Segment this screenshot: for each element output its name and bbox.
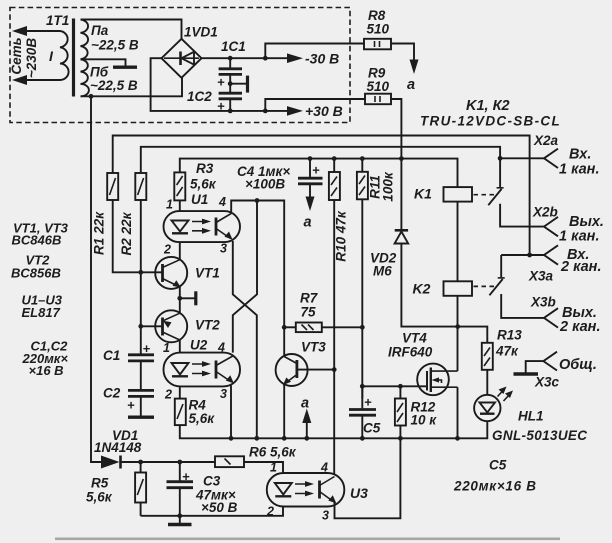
svg-text:5,6к: 5,6к (86, 490, 113, 505)
svg-text:VT1: VT1 (195, 266, 220, 281)
junction 1C1 bottom (228, 81, 233, 86)
capacitor C1 (128, 353, 154, 356)
svg-text:Общ.: Общ. (559, 357, 597, 373)
junction VT3 collector / R7 (282, 325, 287, 330)
svg-text:1 кан.: 1 кан. (559, 162, 599, 178)
svg-text:X2b: X2b (532, 205, 558, 220)
svg-text:+: + (217, 99, 225, 114)
svg-text:1N4148: 1N4148 (94, 440, 142, 455)
connector X3a fork (544, 245, 558, 264)
capacitor C4 (309, 159, 311, 177)
svg-text:47к: 47к (495, 344, 519, 359)
svg-text:VT2: VT2 (195, 318, 220, 333)
resistor R1 (107, 173, 118, 200)
transformer 1T1 core (72, 19, 75, 97)
arrow +30V output (265, 110, 288, 112)
svg-text:TRU-12VDC-SB-CL: TRU-12VDC-SB-CL (420, 114, 561, 129)
svg-text:Сеть: Сеть (9, 37, 24, 74)
junction R5 top (138, 460, 143, 465)
svg-text:BC846B: BC846B (12, 233, 62, 248)
svg-text:K1: K1 (414, 186, 432, 202)
junction R11 bus3 (360, 156, 365, 161)
svg-text:4: 4 (217, 341, 225, 355)
svg-text:a: a (301, 396, 309, 412)
wire VT1 emitter to VT2 emitter (179, 287, 181, 314)
wire drain node to R13 (458, 327, 488, 343)
connector X2b fork (544, 217, 558, 236)
output T-bar at emitter node (180, 297, 195, 299)
svg-text:3: 3 (220, 242, 227, 256)
svg-text:EL817: EL817 (22, 305, 61, 320)
contact K2.1 pole (500, 255, 502, 277)
svg-text:2: 2 (164, 388, 172, 402)
transformer 1T1 primary winding I (60, 31, 69, 80)
junction R1/R2 base node (138, 270, 143, 275)
svg-text:R1 22к: R1 22к (92, 211, 107, 255)
junction VT3 base / R10 column (332, 367, 337, 372)
svg-text:+: + (127, 398, 135, 413)
resistor R2 (135, 173, 146, 200)
svg-text:HL1: HL1 (518, 409, 544, 424)
transistor VT2 (155, 310, 187, 342)
svg-text:1: 1 (163, 341, 170, 355)
wire X3a row (501, 254, 544, 256)
svg-text:10 к: 10 к (411, 413, 438, 428)
wire contact output to X2b (500, 204, 544, 227)
arrow -30V output (265, 57, 288, 59)
svg-text:X2a: X2a (533, 133, 559, 148)
svg-text:2: 2 (163, 243, 171, 257)
connector X2a fork (544, 149, 558, 168)
svg-text:U1: U1 (191, 192, 208, 207)
wire U1 pin3 down (X cross left) (233, 241, 257, 438)
wire VT4 source to rail (457, 387, 459, 438)
svg-text:C3: C3 (203, 474, 221, 489)
wire gate row (362, 385, 427, 387)
capacitor 1C2 (229, 84, 231, 92)
svg-text:a: a (407, 77, 415, 93)
wire R2 to VT2 base and C1 (140, 200, 142, 354)
arrow node a (C4) (309, 185, 311, 199)
optocoupler U3 (267, 473, 345, 507)
wire VT2 collector to U2 pin1 (179, 340, 181, 353)
wire X3c to chassis bar (526, 361, 544, 372)
svg-text:4: 4 (320, 461, 328, 475)
wire bus1 (R1 top to X3a) (113, 136, 530, 256)
svg-text:C5: C5 (489, 458, 507, 473)
svg-text:×50 В: ×50 В (201, 500, 238, 515)
svg-text:1 кан.: 1 кан. (559, 229, 599, 245)
junction R9/VD2 bus3 (399, 156, 404, 161)
wire bridge right / -30 rail (202, 57, 266, 59)
svg-text:+: + (182, 469, 190, 484)
resistor R10 (333, 159, 335, 172)
diode VD1 (101, 456, 120, 469)
connector Общ X3c fork (543, 352, 557, 371)
wire X cross right leg to U2 pin4 (233, 201, 257, 353)
svg-text:3: 3 (322, 509, 329, 523)
arrow node a (rail up-arrow) (306, 419, 308, 438)
junction source rail (455, 436, 460, 441)
svg-text:BC856B: BC856B (11, 266, 61, 281)
junction R10 bus3 (332, 156, 337, 161)
wire +30V to R9 (265, 99, 365, 111)
mechanical link K2 (474, 285, 496, 287)
wire primary top lead (24, 30, 60, 32)
wire R3 to U1 pin1 (179, 200, 181, 211)
svg-text:5,6к: 5,6к (190, 177, 217, 192)
svg-text:-30 В: -30 В (305, 51, 339, 67)
svg-text:×16 В: ×16 В (29, 363, 64, 378)
svg-text:U2: U2 (190, 338, 208, 353)
node +30V junction (263, 109, 268, 114)
wire U3 pin3 to rail junction (335, 438, 401, 518)
junction U2 pin3 rail (229, 436, 234, 441)
wire VT3 base to R10 column (297, 369, 334, 371)
junction C4 bus3 (308, 156, 313, 161)
junction pin4 row (255, 198, 260, 203)
junction gate/R12 (398, 384, 403, 389)
transformer secondary winding IIa (81, 20, 89, 60)
wire R7 to R11 column (322, 326, 363, 328)
svg-text:1C2: 1C2 (187, 89, 212, 104)
svg-text:2: 2 (266, 505, 274, 519)
node -30V junction (263, 56, 268, 61)
svg-text:Пa: Пa (91, 23, 109, 38)
LED HL1 (474, 395, 500, 421)
wire secondary top to bridge (81, 20, 182, 39)
wire R13 to HL1 (486, 370, 488, 395)
svg-text:~22,5 В: ~22,5 В (90, 78, 138, 93)
wire VD1 row (91, 96, 101, 462)
junction VT3 emitter rail (282, 436, 287, 441)
svg-text:3: 3 (220, 387, 227, 401)
svg-text:1T1: 1T1 (46, 13, 69, 28)
svg-text:+: + (143, 341, 151, 356)
wire contact output to X3b (501, 294, 544, 318)
diode bridge 1VD1 (162, 39, 202, 78)
capacitor 1C1 (229, 58, 231, 67)
junction emitter node (177, 296, 182, 301)
relay coil K1 (444, 187, 473, 202)
relay coil K2 (444, 281, 473, 296)
resistor R12 (399, 386, 401, 398)
svg-text:C5: C5 (363, 421, 381, 436)
svg-text:X3a: X3a (528, 269, 554, 284)
svg-text:~230В: ~230В (24, 38, 39, 78)
resistor R4 (175, 399, 186, 426)
svg-text:5,6к: 5,6к (189, 411, 216, 426)
transistor VT1 (155, 257, 187, 289)
capacitor C2 (128, 389, 154, 392)
svg-text:C1: C1 (103, 348, 120, 363)
optocoupler U1 (164, 211, 241, 242)
svg-text:~22,5 В: ~22,5 В (91, 38, 139, 53)
svg-text:1VD1: 1VD1 (184, 25, 218, 40)
resistor R13 (482, 343, 493, 370)
wire -30V to R8 (265, 44, 364, 59)
wire bridge left to +30 rail (151, 58, 266, 111)
arrow node a (R8) (410, 60, 419, 75)
svg-text:K1, К2: K1, К2 (466, 98, 510, 114)
resistor R5 (140, 462, 142, 473)
svg-text:R2 22к: R2 22к (119, 211, 134, 255)
svg-text:+: + (312, 163, 320, 178)
junction secondary bottom / common (89, 94, 94, 99)
junction C3 top (177, 460, 182, 465)
dashed power-supply box (10, 8, 350, 123)
wire X2a row (500, 157, 544, 159)
resistor R6 (215, 456, 244, 467)
chassis T-bar between 1C1 and 1C2 (230, 83, 247, 85)
contact K1.1 arm (488, 189, 501, 205)
svg-text:2 кан.: 2 кан. (559, 319, 600, 335)
wire VT3 collector node to R7 (284, 326, 296, 328)
svg-text:75: 75 (301, 305, 317, 320)
junction X-left leg rail (254, 436, 259, 441)
chassis bar below C2 (128, 416, 154, 419)
svg-text:510: 510 (367, 22, 390, 37)
svg-text:+: + (217, 75, 225, 90)
svg-text:VT3: VT3 (301, 340, 326, 355)
svg-text:X3c: X3c (534, 375, 560, 390)
junction ground stub (177, 513, 182, 518)
svg-text:1C1: 1C1 (221, 39, 246, 54)
svg-text:X3b: X3b (530, 295, 556, 310)
resistor R3 (174, 172, 185, 200)
svg-text:Вх.: Вх. (569, 147, 591, 163)
mechanical link K1 (474, 194, 495, 196)
arrow mains top (12, 26, 27, 36)
junction drain node (455, 324, 460, 329)
svg-text:4: 4 (218, 195, 226, 209)
junction VT2 base node (138, 324, 143, 329)
wire K1 coil to K2 coil (457, 202, 459, 282)
junction 1C2 bottom (228, 109, 233, 114)
transistor VT4 MOSFET (417, 364, 449, 396)
svg-text:510: 510 (367, 79, 390, 94)
svg-text:VT4: VT4 (402, 331, 427, 346)
svg-text:2 кан.: 2 кан. (560, 259, 601, 275)
junction 1C1 top (228, 56, 233, 61)
contact K2.1 arm (489, 279, 502, 295)
wire U2 pin2 to R4 (179, 386, 181, 398)
capacitor C3 (179, 462, 181, 481)
junction C5 rail (360, 436, 365, 441)
wire K2 coil to drain node (457, 296, 459, 371)
ground symbol (179, 516, 181, 523)
wire bus3 (R3 top to K1 coil) (180, 159, 458, 188)
svg-text:U3: U3 (350, 485, 368, 501)
junction gate/C5 column (360, 384, 365, 389)
wire U1 pin4 to node row (231, 201, 284, 328)
svg-text:C2: C2 (103, 386, 121, 401)
wire secondary bottom lead (81, 78, 183, 97)
junction R12 rail (398, 436, 403, 441)
wire R4 bottom to mid rail (180, 421, 488, 438)
wire U1 pin2 to VT1 collector (179, 242, 181, 260)
resistor R11 (361, 159, 363, 172)
capacitor C5 (361, 386, 363, 408)
svg-text:+30 В: +30 В (305, 103, 343, 119)
wire R11 bottom through R7 node to gate row (361, 199, 363, 398)
optocoupler U2 (164, 353, 241, 387)
svg-text:R10 47к: R10 47к (333, 210, 348, 262)
contact K1.1 pole (498, 156, 503, 161)
wire R6 to U3 pin1 (244, 462, 283, 473)
svg-text:R7: R7 (300, 291, 319, 306)
transformer secondary winding IIб (81, 59, 89, 96)
svg-text:a: a (304, 215, 312, 231)
diode VD2 (400, 159, 402, 231)
wire R9 down to bus3 node (391, 99, 401, 159)
svg-text:1: 1 (270, 461, 277, 475)
svg-text:1: 1 (166, 198, 173, 212)
wire secondary center tap (81, 59, 126, 66)
resistor R7 (296, 323, 322, 333)
wire primary bottom lead (24, 79, 60, 81)
center tap chassis bar (113, 65, 137, 68)
svg-text:R6 5,6к: R6 5,6к (249, 445, 297, 460)
wire R8 to node a (391, 44, 414, 63)
svg-text:R5: R5 (91, 476, 109, 491)
wire VT3 emitter to rail (283, 385, 285, 439)
node X3a junction (527, 253, 532, 258)
svg-text:R3: R3 (196, 161, 214, 176)
transistor VT3 (mirrored) (276, 354, 308, 386)
wire VT3 collector up (283, 327, 285, 356)
svg-text:GNL-5013UEC: GNL-5013UEC (492, 428, 587, 443)
wire bus2 (R2 top to contact K1 pole) (141, 147, 500, 173)
svg-text:×100В: ×100В (245, 177, 285, 192)
svg-text:K2: K2 (413, 281, 431, 297)
wire U2 pin3 to rail (230, 386, 232, 439)
svg-text:М6: М6 (373, 264, 392, 279)
svg-text:IRF640: IRF640 (388, 345, 433, 360)
arrow mains bottom (12, 75, 27, 85)
resistor R8 (364, 39, 391, 50)
bottom ground wire (141, 506, 283, 516)
svg-text:+: + (364, 395, 372, 410)
connector X3b fork (544, 308, 558, 327)
wire R1 to VT1 base (113, 200, 163, 272)
scan artifact bottom bar (55, 538, 560, 541)
wire R10 bottom to VT3 base node and U3 pin4 (333, 200, 335, 474)
svg-text:R13: R13 (497, 328, 522, 343)
junction R11/R7 (360, 325, 365, 330)
svg-text:100к: 100к (381, 171, 396, 202)
svg-text:220мк×16 В: 220мк×16 В (453, 479, 537, 494)
resistor R9 (365, 94, 391, 105)
